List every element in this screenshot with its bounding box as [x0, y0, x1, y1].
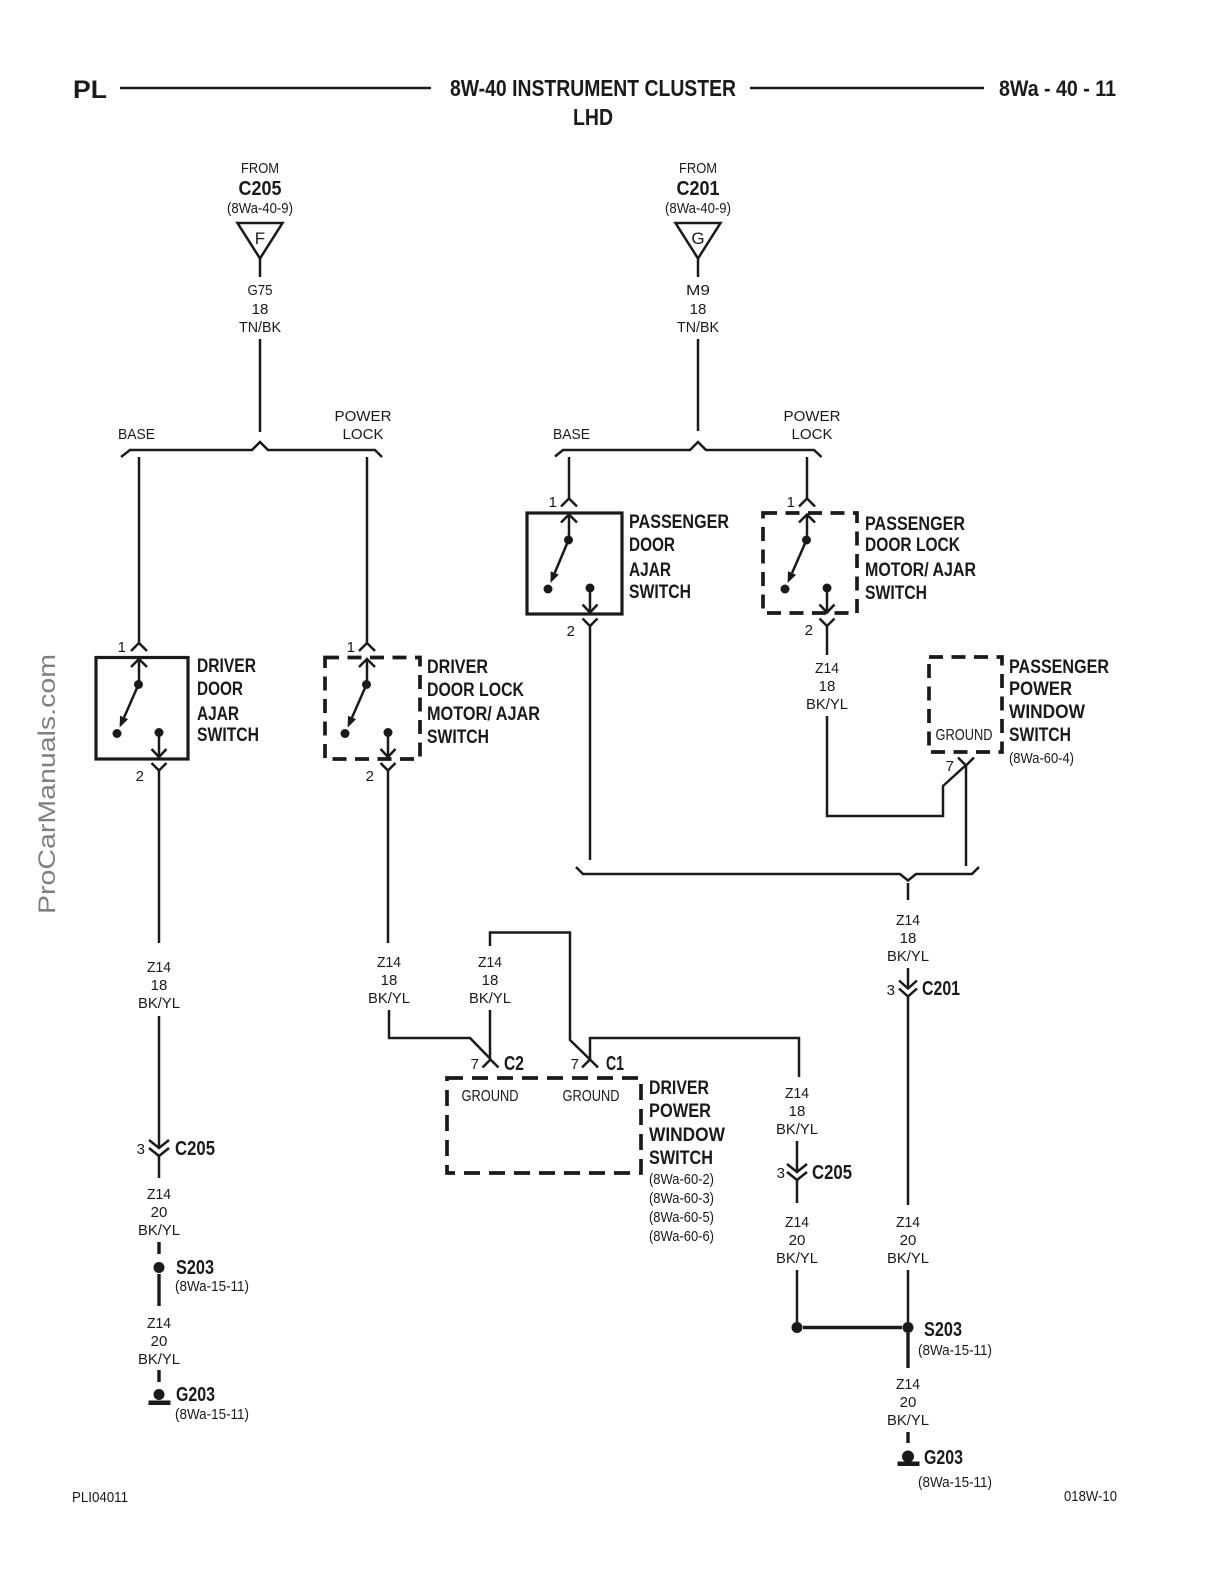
svg-text:20: 20 [900, 1394, 917, 1411]
svg-text:PASSENGER: PASSENGER [865, 514, 965, 535]
svg-text:DOOR: DOOR [197, 679, 243, 700]
svg-text:18: 18 [690, 301, 707, 318]
svg-text:(8Wa-60-3): (8Wa-60-3) [649, 1190, 714, 1207]
svg-text:BK/YL: BK/YL [887, 1412, 929, 1429]
wire into C201 [907, 968, 910, 989]
pin 7 connector glyph passenger power window switch [958, 758, 974, 766]
wire below C201 [907, 997, 910, 1206]
off-page connector G triangle [676, 223, 721, 259]
svg-text:8W-40 INSTRUMENT CLUSTER: 8W-40 INSTRUMENT CLUSTER [450, 75, 736, 101]
svg-text:2: 2 [567, 623, 575, 640]
svg-text:C201: C201 [922, 978, 960, 1000]
svg-text:18: 18 [381, 972, 398, 989]
svg-text:Z14: Z14 [147, 959, 171, 976]
svg-text:TN/BK: TN/BK [677, 319, 719, 336]
splice S203 dot right [903, 1322, 914, 1333]
svg-text:WINDOW: WINDOW [1009, 702, 1085, 723]
svg-text:POWER: POWER [335, 408, 392, 425]
svg-text:DOOR LOCK: DOOR LOCK [427, 680, 524, 701]
svg-text:BK/YL: BK/YL [776, 1121, 818, 1138]
wire into splice S203 left leg [157, 1242, 160, 1254]
passenger split brace (BASE / POWER LOCK) [555, 442, 822, 457]
svg-text:(8Wa-40-9): (8Wa-40-9) [227, 200, 293, 217]
svg-text:DRIVER: DRIVER [427, 657, 488, 678]
svg-text:18: 18 [252, 301, 269, 318]
svg-text:SWITCH: SWITCH [865, 583, 927, 604]
wire below S203 left [157, 1274, 160, 1306]
wire below C205 right [796, 1180, 799, 1203]
svg-text:C201: C201 [677, 178, 720, 200]
driver door ajar switch S1 [96, 658, 188, 760]
wire bridge between C2 and C1 branches [490, 933, 590, 1060]
svg-text:BK/YL: BK/YL [806, 696, 848, 713]
svg-text:20: 20 [151, 1333, 168, 1350]
wire from connector F [259, 259, 262, 278]
svg-text:018W-10: 018W-10 [1064, 1488, 1117, 1505]
svg-text:1: 1 [549, 494, 557, 511]
svg-text:(8Wa-15-11): (8Wa-15-11) [918, 1342, 992, 1359]
svg-text:F: F [255, 229, 265, 248]
svg-text:(8Wa-60-2): (8Wa-60-2) [649, 1171, 714, 1188]
wire middle down to pin C2 [489, 1010, 492, 1059]
svg-text:C1: C1 [606, 1053, 624, 1075]
wire from C1 to right branch [590, 1038, 799, 1077]
wire passenger ajar pin 2 down to ground bus [589, 627, 592, 861]
wire BASE drop to driver door ajar switch pin 1 [138, 457, 141, 643]
svg-text:DRIVER: DRIVER [197, 656, 256, 677]
svg-text:18: 18 [900, 930, 917, 947]
svg-text:20: 20 [789, 1232, 806, 1249]
wire driver ajar pin 2 down [158, 771, 161, 943]
in-line connector C201 chevrons [899, 981, 917, 989]
ground G203 symbol right [902, 1451, 914, 1463]
svg-text:G75: G75 [248, 282, 273, 299]
wire down to C205 right branch [796, 1141, 799, 1172]
svg-text:(8Wa-60-6): (8Wa-60-6) [649, 1228, 714, 1245]
page header rule left [120, 87, 431, 90]
ground G203 symbol left [154, 1389, 165, 1400]
svg-text:LOCK: LOCK [792, 426, 833, 443]
svg-text:Z14: Z14 [147, 1315, 171, 1332]
svg-text:Z14: Z14 [478, 954, 502, 971]
svg-text:PL: PL [73, 76, 107, 104]
svg-text:DOOR: DOOR [629, 535, 675, 556]
splice jumper wire [803, 1326, 902, 1329]
svg-text:BASE: BASE [553, 426, 590, 443]
svg-text:3: 3 [887, 982, 895, 999]
wire below C205 [158, 1156, 161, 1178]
wire M9 down to split [697, 339, 700, 431]
wire down to splice junction [796, 1270, 799, 1322]
wire into ground G203 right [906, 1432, 909, 1443]
passenger door lock motor / ajar switch [763, 513, 857, 613]
svg-text:GROUND: GROUND [462, 1088, 519, 1105]
svg-text:BK/YL: BK/YL [887, 948, 929, 965]
svg-text:BK/YL: BK/YL [887, 1250, 929, 1267]
svg-text:3: 3 [137, 1141, 145, 1158]
svg-text:18: 18 [819, 678, 836, 695]
svg-text:BK/YL: BK/YL [138, 1351, 180, 1368]
svg-text:7: 7 [471, 1056, 479, 1073]
svg-text:BK/YL: BK/YL [138, 995, 180, 1012]
svg-text:SWITCH: SWITCH [649, 1148, 713, 1169]
svg-text:2: 2 [805, 622, 813, 639]
wire elbow to passenger power window switch pin 7 [827, 716, 966, 816]
svg-text:TN/BK: TN/BK [239, 319, 281, 336]
svg-text:SWITCH: SWITCH [197, 725, 259, 746]
svg-text:BK/YL: BK/YL [368, 990, 410, 1007]
off-page connector F triangle [238, 223, 283, 259]
svg-text:AJAR: AJAR [197, 704, 239, 725]
svg-text:(8Wa-15-11): (8Wa-15-11) [175, 1406, 249, 1423]
svg-text:DRIVER: DRIVER [649, 1078, 709, 1099]
svg-text:1: 1 [118, 639, 126, 656]
wire down to splice S203 right [907, 1270, 910, 1322]
svg-text:G203: G203 [176, 1384, 215, 1406]
svg-text:FROM: FROM [679, 160, 717, 177]
svg-text:GROUND: GROUND [563, 1088, 620, 1105]
svg-text:20: 20 [900, 1232, 917, 1249]
svg-text:Z14: Z14 [785, 1214, 809, 1231]
svg-text:C205: C205 [239, 178, 282, 200]
svg-text:C2: C2 [504, 1053, 524, 1075]
svg-text:G: G [691, 229, 704, 248]
svg-text:GROUND: GROUND [936, 727, 993, 744]
wire pin 7 down to ground bus [965, 766, 968, 867]
driver power window switch dashed box [447, 1078, 641, 1173]
wire from connector G [697, 259, 700, 278]
ground bus drop stub [907, 883, 910, 900]
page header rule right [750, 87, 984, 90]
svg-text:M9: M9 [686, 282, 710, 299]
driver split brace (BASE / POWER LOCK) [121, 442, 382, 457]
svg-text:POWER: POWER [1009, 679, 1072, 700]
svg-text:SWITCH: SWITCH [629, 582, 691, 603]
svg-text:BASE: BASE [118, 426, 155, 443]
svg-text:C205: C205 [175, 1138, 215, 1160]
pin 7 C2 connector glyph [483, 1060, 499, 1068]
svg-text:C205: C205 [812, 1162, 852, 1184]
wire passenger lock motor pin 2 down [826, 626, 829, 656]
svg-text:BK/YL: BK/YL [138, 1222, 180, 1239]
svg-text:Z14: Z14 [377, 954, 401, 971]
passenger door ajar switch [527, 513, 622, 614]
svg-text:Z14: Z14 [896, 1214, 920, 1231]
svg-text:SWITCH: SWITCH [1009, 725, 1071, 746]
svg-text:S203: S203 [176, 1257, 214, 1279]
svg-text:ProCarManuals.com: ProCarManuals.com [34, 654, 61, 914]
svg-text:MOTOR/ AJAR: MOTOR/ AJAR [427, 704, 540, 725]
wire G75 down to split [259, 339, 262, 432]
svg-text:AJAR: AJAR [629, 560, 671, 581]
svg-text:8Wa - 40 - 11: 8Wa - 40 - 11 [999, 76, 1116, 101]
svg-text:PASSENGER: PASSENGER [1009, 657, 1109, 678]
svg-text:MOTOR/ AJAR: MOTOR/ AJAR [865, 560, 976, 581]
svg-text:1: 1 [787, 494, 795, 511]
in-line connector C205 pin 3 chevrons [149, 1140, 169, 1148]
wire elbow to driver power window switch pin 7 C2 [389, 1010, 491, 1059]
svg-text:(8Wa-60-4): (8Wa-60-4) [1009, 750, 1074, 767]
wire into ground G203 left [157, 1370, 160, 1382]
svg-text:WINDOW: WINDOW [649, 1125, 725, 1146]
svg-text:BK/YL: BK/YL [776, 1250, 818, 1267]
pin 7 C1 connector glyph [582, 1060, 598, 1068]
svg-text:18: 18 [482, 972, 499, 989]
svg-text:20: 20 [151, 1204, 168, 1221]
svg-text:7: 7 [946, 758, 954, 775]
in-line connector C205 right chevrons [787, 1164, 807, 1172]
svg-text:18: 18 [151, 977, 168, 994]
svg-text:LHD: LHD [573, 104, 613, 130]
svg-text:1: 1 [347, 639, 355, 656]
svg-text:Z14: Z14 [896, 1376, 920, 1393]
svg-text:LOCK: LOCK [343, 426, 384, 443]
splice junction dot left [792, 1322, 803, 1333]
wire driver lock motor pin 2 down [387, 771, 390, 943]
wire below S203 right [906, 1333, 909, 1368]
svg-text:SWITCH: SWITCH [427, 727, 489, 748]
svg-text:DOOR LOCK: DOOR LOCK [865, 535, 960, 556]
svg-text:PLI04011: PLI04011 [72, 1489, 128, 1506]
svg-text:(8Wa-40-9): (8Wa-40-9) [665, 200, 731, 217]
svg-text:BK/YL: BK/YL [469, 990, 511, 1007]
ground bus brace [576, 867, 979, 881]
passenger power window switch dashed box [929, 657, 1002, 752]
splice S203 dot (driver branch) [154, 1262, 165, 1273]
svg-text:(8Wa-15-11): (8Wa-15-11) [175, 1278, 249, 1295]
svg-text:Z14: Z14 [785, 1085, 809, 1102]
svg-text:S203: S203 [924, 1319, 962, 1341]
wire BASE drop to passenger door ajar pin 1 [568, 457, 571, 498]
wire POWER LOCK drop to driver door lock motor pin 1 [366, 457, 369, 643]
svg-text:2: 2 [136, 768, 144, 785]
svg-text:Z14: Z14 [815, 660, 839, 677]
svg-text:POWER: POWER [784, 408, 841, 425]
driver door lock motor / ajar switch [325, 658, 420, 760]
svg-text:POWER: POWER [649, 1101, 711, 1122]
svg-text:Z14: Z14 [147, 1186, 171, 1203]
svg-text:Z14: Z14 [896, 912, 920, 929]
svg-text:FROM: FROM [241, 160, 279, 177]
svg-text:3: 3 [777, 1165, 785, 1182]
wire POWER LOCK drop to passenger lock motor pin 1 [806, 457, 809, 498]
svg-text:(8Wa-60-5): (8Wa-60-5) [649, 1209, 714, 1226]
svg-text:PASSENGER: PASSENGER [629, 512, 729, 533]
svg-text:G203: G203 [924, 1447, 963, 1469]
wire Z14 to C205 [158, 1016, 161, 1148]
svg-text:7: 7 [571, 1056, 579, 1073]
svg-text:(8Wa-15-11): (8Wa-15-11) [918, 1474, 992, 1491]
svg-text:18: 18 [789, 1103, 806, 1120]
svg-text:2: 2 [366, 768, 374, 785]
